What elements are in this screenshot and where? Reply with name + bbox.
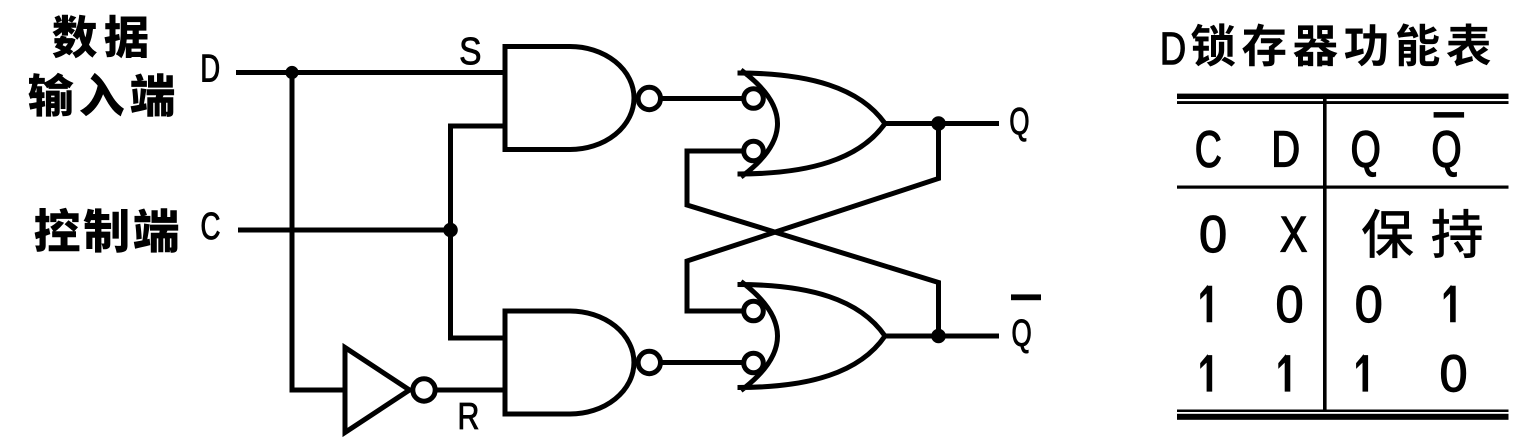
G4 lower input bubble bbox=[744, 353, 764, 373]
table r1 保 bbox=[1362, 209, 1413, 258]
junction: Qbar output node bbox=[931, 329, 946, 344]
wire: NAND G1 output to G3 input bbox=[661, 96, 743, 101]
table r1 持 bbox=[1432, 209, 1482, 258]
table rule: header underline bbox=[1177, 186, 1509, 189]
table rule: bottom thick bbox=[1177, 414, 1509, 420]
junction: D wire node bbox=[285, 66, 298, 79]
inverter G5 triangle bbox=[345, 348, 410, 433]
NAND gate G1 output bubble bbox=[638, 87, 660, 109]
wire: cross feedback Qbar to G3 lower input bbox=[687, 151, 939, 336]
label: data-input line2 输入端 bbox=[29, 73, 175, 117]
table rule: column divider vertical bbox=[1323, 99, 1327, 410]
wire: NAND G2 output to G4 input bbox=[661, 360, 743, 365]
wire: D branch down to inverter bbox=[292, 73, 345, 391]
junction: C wire node bbox=[443, 223, 458, 238]
table header C bbox=[1197, 131, 1221, 168]
wire: G3 output to Q bbox=[885, 121, 999, 126]
label: control 控制端 bbox=[35, 208, 179, 253]
table r3c4 0 bbox=[1442, 355, 1466, 392]
table r1c2 X bbox=[1281, 217, 1307, 252]
G3 lower input bubble bbox=[744, 141, 764, 161]
node label R bbox=[460, 403, 478, 429]
wire: cross feedback Q to G4 upper input bbox=[687, 124, 939, 312]
table r2c4 1 bbox=[1444, 286, 1455, 321]
wire: D input bbox=[236, 70, 505, 75]
table rule: top thin bbox=[1177, 101, 1509, 104]
G4 upper input bubble bbox=[744, 301, 764, 321]
wire: C input bbox=[238, 228, 451, 233]
NOR-style gate G3 body (negative-input OR) bbox=[738, 70, 886, 177]
table r2c1 1 bbox=[1201, 286, 1212, 321]
NOR-style gate G4 body (negative-input OR) bbox=[738, 282, 886, 391]
table header Qbar glyph bbox=[1433, 131, 1459, 177]
wire: inverter output R to G2 bbox=[437, 388, 505, 393]
table title 锁存器功能表 bbox=[1191, 23, 1490, 66]
table r2c3 0 bbox=[1357, 286, 1381, 323]
table r1c1 0 bbox=[1201, 216, 1225, 253]
wire: C branch vertical + stubs to both NAND gates bbox=[451, 126, 506, 338]
input label C bbox=[202, 212, 220, 239]
NAND gate G1 body bbox=[505, 47, 634, 150]
table header D bbox=[1275, 131, 1299, 166]
inverter G5 output bubble bbox=[413, 379, 435, 401]
NAND gate G2 body bbox=[505, 311, 634, 414]
NAND gate G2 output bubble bbox=[638, 351, 660, 373]
G3 upper input bubble bbox=[744, 89, 764, 109]
wire: G4 output to Qbar bbox=[885, 334, 999, 339]
node label S bbox=[461, 37, 480, 64]
table r3c1 1 bbox=[1201, 356, 1212, 391]
table header Qbar overbar bbox=[1434, 112, 1465, 118]
output label Qbar glyph bbox=[1013, 319, 1031, 353]
input label D bbox=[203, 55, 219, 82]
table r2c2 0 bbox=[1278, 286, 1302, 323]
table title D (Latin) bbox=[1163, 33, 1185, 65]
output label Q bbox=[1011, 108, 1029, 142]
table r3c3 1 bbox=[1357, 356, 1368, 391]
table header Q bbox=[1353, 131, 1379, 177]
label: data-input line1 数据 bbox=[53, 15, 148, 59]
table rule: bottom thin bbox=[1177, 410, 1509, 413]
table rule: top thick bbox=[1177, 94, 1509, 99]
output label Qbar overbar bbox=[1011, 294, 1041, 300]
junction: Q output node bbox=[931, 116, 946, 131]
table r3c2 1 bbox=[1279, 356, 1290, 391]
